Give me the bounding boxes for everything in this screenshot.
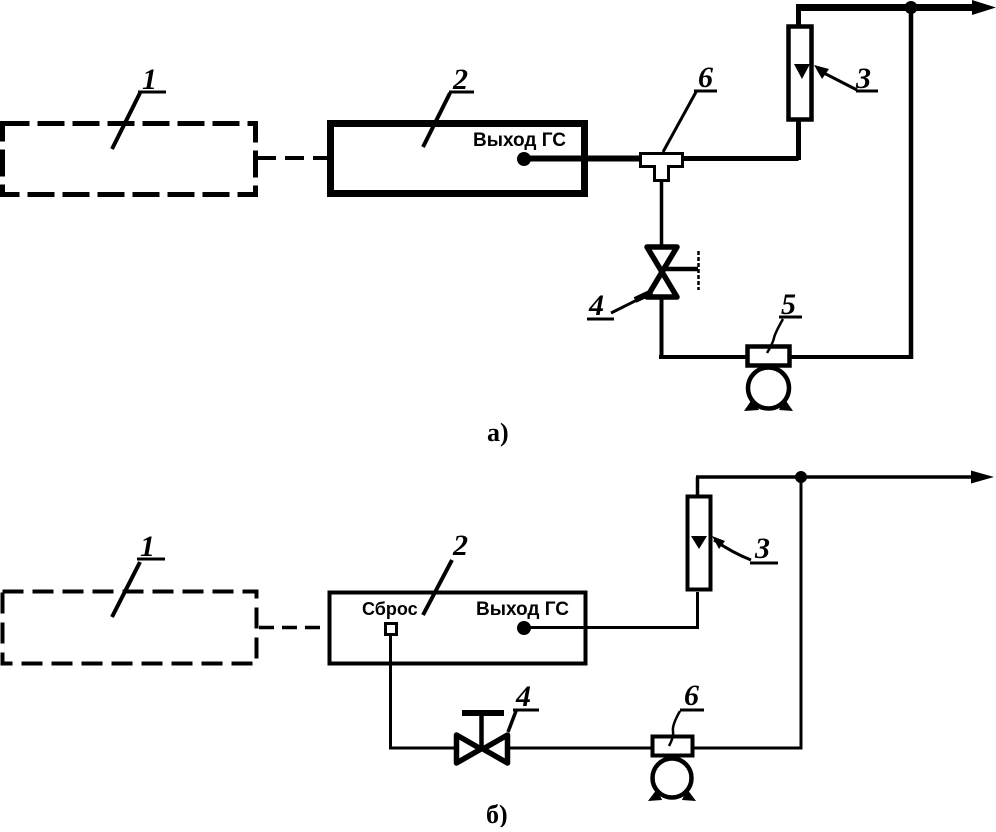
svg-text:б): б) <box>486 800 508 827</box>
svg-text:2: 2 <box>452 529 468 562</box>
wire: junction b down to pump loop <box>800 477 803 750</box>
rotameter 3 (flow meter tube) <box>789 27 812 120</box>
label 3 (leader arrow + underline) <box>814 62 878 95</box>
label 5 (leader + underline) <box>767 288 802 353</box>
label 4 (leader + underline) <box>587 289 652 322</box>
arrow: gas outlet b <box>971 471 994 484</box>
rotameter 3b (flow meter tube) <box>688 497 711 590</box>
node: vent port square <box>386 624 397 635</box>
wire: dashed connector box1-box2 <box>257 156 328 160</box>
label 1 (leader + underline) <box>112 63 166 149</box>
svg-text:а): а) <box>487 418 509 447</box>
arrow: gas outlet <box>972 0 996 15</box>
wire: bottom line b <box>389 747 801 750</box>
valve 4 (needle valve, vertical) <box>647 247 699 297</box>
wire: rotameter b top stub <box>696 477 700 498</box>
label 6 (leader + underline) <box>663 61 717 152</box>
label 3b (leader + underline) <box>712 532 778 565</box>
svg-text:Выход ГС: Выход ГС <box>476 599 569 620</box>
label 4b (leader + underline) <box>508 680 539 732</box>
svg-text:4: 4 <box>515 680 531 713</box>
label 1b (leader + underline) <box>112 530 165 617</box>
label 2 (leader + underline) <box>423 63 474 147</box>
label 6b (leader + underline) <box>669 679 704 746</box>
wire: top outlet line <box>796 4 980 11</box>
tee fitting 6 <box>641 154 683 181</box>
svg-text:3: 3 <box>754 532 770 565</box>
svg-text:6: 6 <box>684 679 699 712</box>
svg-text:Выход ГС: Выход ГС <box>473 130 566 151</box>
junction node b <box>795 471 807 483</box>
wire: port dot to tee <box>524 156 640 162</box>
label 2b (leader) <box>423 529 468 615</box>
wire: junction to pump loop (right riser) <box>909 8 914 360</box>
block 2b (gas generator, solid box) <box>330 593 586 664</box>
svg-text:4: 4 <box>588 289 604 322</box>
wire: dot to rotameter b <box>524 592 698 629</box>
wire: top outlet line b <box>696 475 978 479</box>
wire: valve down and bottom return line <box>659 298 911 357</box>
wire: rotameter top stub <box>796 8 801 29</box>
pump 5 (membrane pump) <box>744 347 793 412</box>
block 2 (gas generator, solid box) <box>331 124 585 194</box>
wire: vent square down <box>389 634 392 750</box>
pump 6b (membrane pump) <box>648 737 696 802</box>
node: outlet port dot <box>517 152 531 166</box>
block 1 (gas source, dashed box) <box>3 124 256 195</box>
junction node <box>905 1 918 14</box>
node: outlet port dot b <box>517 621 531 635</box>
block 1b (gas source, dashed box) <box>3 592 257 664</box>
wire: dashed connector box1b-box2b <box>259 626 329 630</box>
wire: tee to rotameter riser <box>683 120 799 160</box>
valve 4b (vent valve, horizontal) <box>457 713 508 763</box>
wire: tee down to valve <box>660 180 664 246</box>
svg-text:6: 6 <box>698 61 713 94</box>
svg-text:Сброс: Сброс <box>362 599 418 619</box>
